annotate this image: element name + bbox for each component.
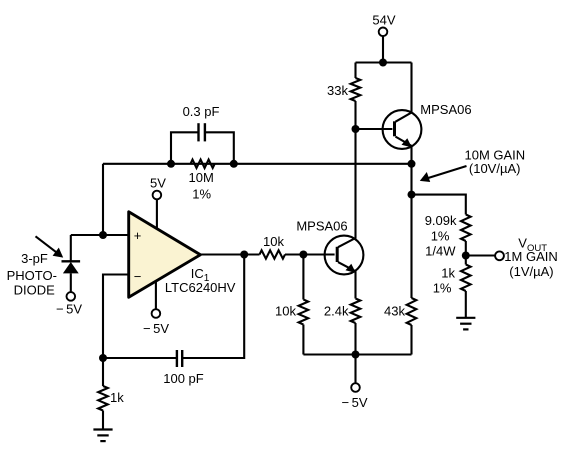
node 10M gain tap (408, 191, 416, 199)
op-amp U1 LTC6240HV (129, 212, 201, 297)
svg-text:1%: 1% (431, 229, 450, 244)
ground left (93, 428, 112, 430)
svg-text:−: − (134, 269, 142, 284)
wire main feedback rail (103, 163, 412, 165)
svg-text:43k: 43k (384, 304, 405, 319)
wire bottom rail (303, 353, 411, 355)
svg-text:2.4k: 2.4k (324, 304, 349, 319)
transistor Q1 MPSA06 (383, 63, 422, 164)
svg-text:MPSA06: MPSA06 (296, 219, 347, 234)
ground right (456, 317, 475, 319)
terminal -5V bottom (354, 355, 356, 384)
terminal -5V op-amp supply (155, 282, 157, 310)
resistor 33k (354, 63, 356, 79)
svg-text:1k: 1k (110, 390, 124, 405)
wire photodiode to + input (71, 234, 129, 236)
svg-text:33k: 33k (327, 83, 348, 98)
svg-text:− 5V: − 5V (143, 321, 169, 336)
svg-text:(1V/µA): (1V/µA) (509, 264, 553, 279)
svg-text:5V: 5V (150, 176, 166, 191)
wire op-amp output (200, 253, 259, 255)
wire Q1 base lead (356, 128, 393, 130)
resistor 10k series (260, 250, 286, 258)
svg-text:10M: 10M (189, 170, 214, 185)
svg-text:− 5V: − 5V (56, 302, 82, 317)
resistor 10k vertical (302, 255, 304, 300)
svg-text:+: + (134, 228, 142, 243)
svg-text:DIODE: DIODE (14, 283, 56, 298)
node Q2 base junction (299, 251, 307, 259)
wire - input (103, 275, 129, 359)
resistor 2.4k (351, 299, 361, 324)
resistor 10M (191, 160, 215, 168)
svg-text:0.3 pF: 0.3 pF (183, 104, 220, 119)
svg-text:54V: 54V (372, 12, 395, 27)
node 54V rail junction (379, 59, 387, 67)
wire to Vout terminal (466, 254, 495, 256)
wire 9.09k branch top (412, 195, 466, 215)
transistor Q2 MPSA06 (325, 129, 364, 299)
node -5V rail junction (352, 351, 360, 359)
svg-text:10k: 10k (263, 234, 284, 249)
terminal Vout (495, 251, 504, 260)
svg-text:MPSA06: MPSA06 (420, 102, 471, 117)
svg-text:1/4W: 1/4W (425, 243, 456, 258)
light arrow (36, 236, 58, 253)
svg-text:1%: 1% (192, 187, 211, 202)
arrow 10M gain pointer (425, 166, 467, 179)
photodiode D1 (70, 235, 72, 261)
wire left drop to photodiode node (102, 164, 104, 235)
svg-text:1k: 1k (441, 266, 455, 281)
svg-text:− 5V: − 5V (341, 395, 367, 410)
svg-text:1%: 1% (433, 281, 452, 296)
node feedback right dot (230, 160, 238, 168)
svg-text:10k: 10k (275, 304, 296, 319)
terminal -5V photodiode (67, 292, 76, 301)
node inverting input junction (99, 354, 107, 362)
svg-text:100 pF: 100 pF (163, 371, 204, 386)
wire top rail (356, 61, 412, 63)
wire 54V stem (382, 36, 384, 62)
node Vout junction (462, 252, 470, 260)
svg-text:9.09k: 9.09k (425, 213, 457, 228)
svg-text:LTC6240HV: LTC6240HV (165, 280, 236, 295)
svg-text:1M GAIN: 1M GAIN (504, 249, 557, 264)
resistor 1k left (102, 358, 104, 386)
resistor 9.09k (461, 215, 471, 242)
svg-text:3-pF: 3-pF (21, 251, 48, 266)
svg-text:10M GAIN: 10M GAIN (465, 147, 526, 162)
resistor 1k right (461, 265, 471, 292)
svg-text:(10V/µA): (10V/µA) (469, 161, 521, 176)
svg-text:PHOTO-: PHOTO- (7, 268, 57, 283)
node Q1 base junction (352, 125, 360, 133)
node feedback left dot (167, 160, 175, 168)
node photodiode junction (99, 231, 107, 239)
node Q1 emitter junction (408, 160, 416, 168)
capacitor 100 pF branch (182, 255, 244, 359)
resistor 43k (410, 164, 412, 298)
node output junction (240, 251, 248, 259)
capacitor 0.3 pF (171, 132, 199, 164)
